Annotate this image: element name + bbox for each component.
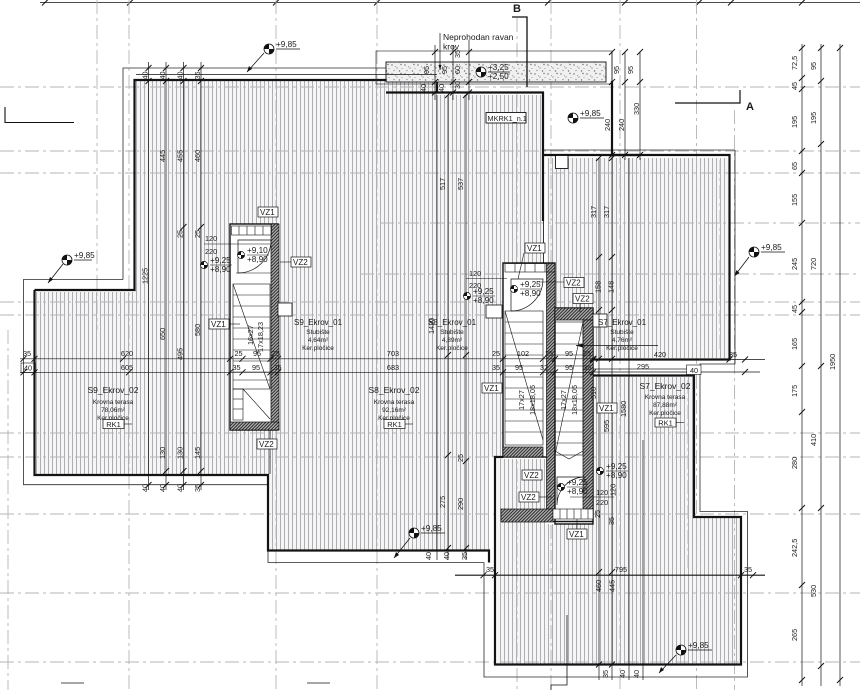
svg-text:Stubište: Stubište bbox=[306, 329, 330, 336]
svg-text:40: 40 bbox=[141, 484, 150, 492]
svg-text:25: 25 bbox=[234, 349, 242, 358]
svg-text:Krovna terasa: Krovna terasa bbox=[93, 399, 134, 406]
svg-text:78,06m²: 78,06m² bbox=[101, 407, 126, 414]
svg-text:40: 40 bbox=[618, 670, 627, 678]
svg-text:25: 25 bbox=[492, 349, 500, 358]
svg-text:120: 120 bbox=[205, 234, 217, 243]
svg-text:35: 35 bbox=[273, 363, 281, 372]
lower flight treads bbox=[233, 284, 270, 420]
svg-text:RK1: RK1 bbox=[658, 419, 673, 428]
svg-text:VZ1: VZ1 bbox=[484, 384, 499, 393]
svg-text:195: 195 bbox=[790, 116, 799, 128]
svg-text:Stubište: Stubište bbox=[610, 329, 634, 336]
svg-text:92,16m²: 92,16m² bbox=[382, 407, 407, 414]
svg-text:+9,85: +9,85 bbox=[276, 40, 297, 49]
svg-text:280: 280 bbox=[790, 457, 799, 469]
svg-text:+9,85: +9,85 bbox=[580, 109, 601, 118]
marker +3.25 strip bbox=[476, 63, 510, 81]
bottom left tick marks bbox=[61, 682, 84, 684]
svg-text:4,64m²: 4,64m² bbox=[308, 337, 329, 344]
Neprohodan label bbox=[439, 32, 514, 70]
svg-text:148: 148 bbox=[607, 281, 616, 293]
svg-text:VZ1: VZ1 bbox=[599, 404, 614, 413]
labels chain lower bbox=[21, 362, 701, 375]
roof hatch right wing bbox=[547, 158, 728, 358]
svg-text:25: 25 bbox=[272, 349, 280, 358]
svg-text:720: 720 bbox=[809, 258, 818, 270]
svg-text:+8,90: +8,90 bbox=[606, 471, 627, 480]
svg-text:330: 330 bbox=[632, 103, 641, 115]
svg-text:1225: 1225 bbox=[141, 268, 150, 284]
svg-text:275: 275 bbox=[438, 496, 447, 508]
marker +9.10 in core bbox=[237, 246, 269, 264]
svg-text:+9,85: +9,85 bbox=[761, 243, 782, 252]
bottom small reference mark bbox=[551, 615, 567, 690]
level markers bbox=[247, 40, 300, 72]
long dim chain lower y371 bbox=[20, 369, 760, 375]
room label S7_Ekrov_01 bbox=[598, 318, 647, 352]
svg-text:Stubište: Stubište bbox=[440, 329, 464, 336]
labels chain upper bbox=[23, 349, 737, 359]
top page dim chain bbox=[40, 0, 860, 6]
svg-text:S9_Ekrov_01: S9_Ekrov_01 bbox=[294, 318, 343, 327]
long dim chain upper y354 bbox=[20, 356, 765, 363]
svg-text:265: 265 bbox=[790, 629, 799, 641]
top-right notch dims bbox=[609, 49, 643, 160]
room label S9_Ekrov_01 bbox=[294, 318, 343, 352]
svg-text:95: 95 bbox=[422, 66, 431, 74]
svg-text:650: 650 bbox=[158, 328, 167, 340]
svg-text:Ker.pločice: Ker.pločice bbox=[649, 410, 681, 417]
section mark B bbox=[512, 3, 527, 87]
svg-text:Krovna terasa: Krovna terasa bbox=[374, 399, 415, 406]
dims 120/220 central core bbox=[466, 269, 507, 290]
svg-text:S8_Ekrov_01: S8_Ekrov_01 bbox=[428, 318, 477, 327]
svg-text:30: 30 bbox=[453, 81, 462, 89]
local dims near central core bottom bbox=[570, 484, 618, 525]
roof hatch S7 terrace bbox=[593, 377, 694, 664]
svg-text:35: 35 bbox=[583, 363, 591, 372]
right-center vertical dim chains bbox=[596, 155, 643, 680]
svg-text:MKRK1_n.1: MKRK1_n.1 bbox=[488, 114, 527, 123]
svg-text:605: 605 bbox=[121, 363, 133, 372]
svg-text:+3,25: +3,25 bbox=[488, 63, 509, 72]
svg-text:102: 102 bbox=[517, 349, 529, 358]
svg-text:220: 220 bbox=[596, 498, 608, 507]
svg-text:+8,90: +8,90 bbox=[473, 296, 494, 305]
svg-text:VZ2: VZ2 bbox=[566, 279, 581, 288]
svg-text:B: B bbox=[513, 3, 521, 15]
svg-text:VZ2: VZ2 bbox=[575, 295, 590, 304]
svg-text:+9,25: +9,25 bbox=[567, 478, 588, 487]
svg-text:95: 95 bbox=[612, 66, 621, 74]
svg-text:Krovna terasa: Krovna terasa bbox=[645, 394, 686, 401]
svg-text:35: 35 bbox=[744, 565, 752, 574]
svg-text:795: 795 bbox=[615, 565, 627, 574]
svg-text:175: 175 bbox=[790, 385, 799, 397]
svg-text:25: 25 bbox=[193, 230, 202, 238]
svg-text:495: 495 bbox=[176, 348, 185, 360]
svg-text:40: 40 bbox=[158, 71, 167, 79]
svg-text:290: 290 bbox=[456, 498, 465, 510]
center wall bbox=[547, 263, 556, 509]
svg-text:120: 120 bbox=[469, 269, 481, 278]
central vertical dim chains bbox=[437, 92, 469, 560]
svg-text:155: 155 bbox=[790, 194, 799, 206]
svg-text:+9,85: +9,85 bbox=[421, 524, 442, 533]
svg-text:A: A bbox=[746, 101, 754, 113]
top flight treads bbox=[232, 226, 272, 235]
chimney tab bbox=[278, 303, 292, 316]
svg-text:Neprohodan ravan: Neprohodan ravan bbox=[443, 32, 514, 42]
svg-text:35: 35 bbox=[193, 71, 202, 79]
svg-text:+2,50: +2,50 bbox=[488, 72, 509, 81]
svg-text:45: 45 bbox=[790, 305, 799, 313]
svg-text:40: 40 bbox=[176, 71, 185, 79]
svg-text:445: 445 bbox=[608, 580, 617, 592]
svg-text:VZ2: VZ2 bbox=[524, 471, 539, 480]
svg-text:410: 410 bbox=[809, 434, 818, 446]
svg-text:120: 120 bbox=[609, 484, 618, 496]
svg-text:195: 195 bbox=[809, 112, 818, 124]
svg-text:25: 25 bbox=[593, 510, 602, 518]
VZ boxed labels bbox=[209, 207, 617, 539]
svg-text:65: 65 bbox=[790, 162, 799, 170]
roof hatch S9 terrace bbox=[36, 292, 268, 475]
svg-text:40: 40 bbox=[419, 84, 428, 92]
S8 core bottom wall bbox=[503, 447, 543, 457]
parapet outline main block thin bbox=[24, 68, 748, 677]
svg-text:130: 130 bbox=[158, 447, 167, 459]
svg-text:VZ2: VZ2 bbox=[293, 258, 308, 267]
MKRK1 label bbox=[486, 113, 527, 124]
svg-text:16x27: 16x27 bbox=[246, 325, 255, 345]
marker +9.25 central core top bbox=[510, 280, 542, 298]
svg-text:420: 420 bbox=[654, 350, 666, 359]
svg-text:145: 145 bbox=[193, 447, 202, 459]
left stair core S9 bbox=[230, 224, 292, 430]
wing top edge tab bbox=[556, 156, 569, 169]
svg-text:Ker.pločice: Ker.pločice bbox=[302, 345, 334, 352]
room label S8_Ekrov_01 bbox=[428, 318, 477, 352]
svg-text:517: 517 bbox=[438, 178, 447, 190]
svg-text:18x18,05: 18x18,05 bbox=[570, 385, 579, 415]
svg-text:95: 95 bbox=[565, 363, 573, 372]
room label S7_Ekrov_02 bbox=[639, 381, 690, 428]
svg-text:18x18,05: 18x18,05 bbox=[528, 385, 537, 415]
svg-text:40: 40 bbox=[632, 670, 641, 678]
room label S9_Ekrov_02 bbox=[87, 385, 138, 429]
svg-text:510: 510 bbox=[589, 387, 598, 399]
svg-text:krov: krov bbox=[443, 42, 460, 52]
left vertical dim chains bbox=[136, 62, 437, 490]
svg-text:4,76m²: 4,76m² bbox=[612, 337, 633, 344]
roof hatch S8 terrace bbox=[268, 355, 489, 550]
svg-text:72,5: 72,5 bbox=[790, 56, 799, 70]
svg-text:+8,90: +8,90 bbox=[520, 289, 541, 298]
svg-text:683: 683 bbox=[387, 363, 399, 372]
svg-text:130: 130 bbox=[176, 447, 185, 459]
svg-text:45: 45 bbox=[790, 82, 799, 90]
svg-text:35: 35 bbox=[492, 363, 500, 372]
svg-text:VZ2: VZ2 bbox=[259, 440, 274, 449]
svg-text:25: 25 bbox=[545, 349, 553, 358]
svg-text:240: 240 bbox=[603, 119, 612, 131]
parapet outline bold bbox=[35, 80, 742, 665]
svg-text:RK1: RK1 bbox=[106, 420, 121, 429]
svg-text:+9,85: +9,85 bbox=[74, 251, 95, 260]
svg-text:40: 40 bbox=[437, 84, 446, 92]
svg-text:35: 35 bbox=[729, 350, 737, 359]
svg-text:VZ1: VZ1 bbox=[527, 244, 542, 253]
svg-text:35: 35 bbox=[607, 517, 616, 525]
svg-text:RK1: RK1 bbox=[387, 420, 402, 429]
section mark A left bbox=[5, 107, 74, 123]
svg-text:+9,25: +9,25 bbox=[210, 256, 231, 265]
svg-text:+9,25: +9,25 bbox=[606, 462, 627, 471]
marker +9.25 right of core bbox=[596, 462, 628, 480]
S7 stair core bbox=[555, 308, 593, 524]
svg-text:Ker.pločice: Ker.pločice bbox=[606, 345, 638, 352]
svg-text:17x18,23: 17x18,23 bbox=[256, 322, 265, 352]
svg-text:317: 317 bbox=[589, 206, 598, 218]
svg-text:95: 95 bbox=[626, 66, 635, 74]
svg-text:+9,25: +9,25 bbox=[520, 280, 541, 289]
svg-text:445: 445 bbox=[158, 150, 167, 162]
S8 stair core bbox=[503, 263, 555, 457]
svg-text:220: 220 bbox=[205, 247, 217, 256]
svg-text:580: 580 bbox=[193, 324, 202, 336]
bottom terrace dim chain y567 bbox=[455, 572, 765, 578]
roof hatch upper block bbox=[36, 80, 741, 664]
svg-text:S9_Ekrov_02: S9_Ekrov_02 bbox=[87, 385, 138, 395]
svg-text:4,89m²: 4,89m² bbox=[442, 337, 463, 344]
svg-text:220: 220 bbox=[469, 281, 481, 290]
svg-text:VZ1: VZ1 bbox=[569, 530, 584, 539]
right page dim chains bbox=[799, 44, 843, 686]
svg-text:703: 703 bbox=[387, 349, 399, 358]
svg-text:620: 620 bbox=[121, 349, 133, 358]
svg-text:35: 35 bbox=[601, 670, 610, 678]
marker +9.25 core bottom bbox=[557, 478, 589, 496]
svg-text:87,88m²: 87,88m² bbox=[653, 402, 678, 409]
svg-text:17x27: 17x27 bbox=[517, 390, 526, 410]
rooftop strip (Neprohodan ravan krov) bbox=[376, 51, 612, 84]
svg-text:25: 25 bbox=[176, 230, 185, 238]
svg-text:240: 240 bbox=[617, 119, 626, 131]
svg-text:+9,10: +9,10 bbox=[247, 246, 268, 255]
svg-text:35: 35 bbox=[486, 565, 494, 574]
svg-text:40: 40 bbox=[176, 484, 185, 492]
svg-text:317: 317 bbox=[602, 206, 611, 218]
svg-text:530: 530 bbox=[809, 585, 818, 597]
svg-text:40: 40 bbox=[141, 71, 150, 79]
svg-text:+8,90: +8,90 bbox=[247, 255, 268, 264]
svg-text:1950: 1950 bbox=[828, 354, 837, 370]
svg-text:35: 35 bbox=[193, 484, 202, 492]
svg-text:40: 40 bbox=[424, 552, 433, 560]
svg-text:S8_Ekrov_02: S8_Ekrov_02 bbox=[368, 385, 419, 395]
local dims near left core bbox=[204, 234, 270, 256]
svg-text:Ker.pločice: Ker.pločice bbox=[436, 345, 468, 352]
marker +9.25 left of central core bbox=[463, 287, 495, 305]
section mark A right bbox=[675, 90, 754, 113]
svg-text:460: 460 bbox=[193, 150, 202, 162]
svg-text:158: 158 bbox=[594, 281, 603, 293]
marker +9.25 left core outside bbox=[200, 256, 232, 274]
svg-text:40: 40 bbox=[442, 552, 451, 560]
svg-text:95: 95 bbox=[515, 363, 523, 372]
svg-text:S7_Ekrov_01: S7_Ekrov_01 bbox=[598, 318, 647, 327]
svg-text:S7_Ekrov_02: S7_Ekrov_02 bbox=[639, 381, 690, 391]
strip left dims bbox=[432, 40, 472, 100]
svg-text:95: 95 bbox=[809, 62, 818, 70]
svg-text:120: 120 bbox=[596, 488, 608, 497]
svg-text:40: 40 bbox=[158, 484, 167, 492]
svg-text:VZ1: VZ1 bbox=[211, 320, 226, 329]
svg-text:32: 32 bbox=[540, 363, 548, 372]
svg-text:95: 95 bbox=[253, 349, 261, 358]
svg-text:242,5: 242,5 bbox=[790, 539, 799, 557]
svg-text:40: 40 bbox=[690, 366, 698, 375]
svg-text:+8,90: +8,90 bbox=[210, 265, 231, 274]
svg-text:1580: 1580 bbox=[619, 401, 628, 417]
svg-text:25: 25 bbox=[583, 349, 591, 358]
svg-text:95: 95 bbox=[252, 363, 260, 372]
central stair cores bbox=[486, 263, 607, 524]
svg-text:460: 460 bbox=[594, 580, 603, 592]
svg-text:595: 595 bbox=[602, 420, 611, 432]
svg-text:+8,90: +8,90 bbox=[567, 487, 588, 496]
svg-text:35: 35 bbox=[232, 363, 240, 372]
svg-text:17x27: 17x27 bbox=[559, 390, 568, 410]
landing arc bbox=[238, 240, 271, 273]
svg-text:295: 295 bbox=[637, 362, 649, 371]
svg-text:537: 537 bbox=[456, 178, 465, 190]
svg-text:245: 245 bbox=[790, 258, 799, 270]
svg-text:60.: 60. bbox=[453, 64, 462, 74]
S8 top flight treads bbox=[505, 264, 555, 273]
svg-text:VZ1: VZ1 bbox=[260, 208, 275, 217]
svg-text:95: 95 bbox=[440, 66, 449, 74]
stair wall hatch right bbox=[271, 224, 279, 430]
svg-text:35: 35 bbox=[460, 552, 469, 560]
svg-text:165: 165 bbox=[790, 338, 799, 350]
room label S8_Ekrov_02 bbox=[368, 385, 419, 429]
svg-text:95: 95 bbox=[565, 349, 573, 358]
svg-text:35: 35 bbox=[23, 349, 31, 358]
svg-text:+9,85: +9,85 bbox=[688, 641, 709, 650]
svg-text:VZ2: VZ2 bbox=[521, 493, 536, 502]
svg-text:25: 25 bbox=[456, 454, 465, 462]
svg-text:40: 40 bbox=[24, 364, 32, 373]
stair wall bottom bbox=[230, 422, 279, 430]
svg-text:455: 455 bbox=[176, 150, 185, 162]
